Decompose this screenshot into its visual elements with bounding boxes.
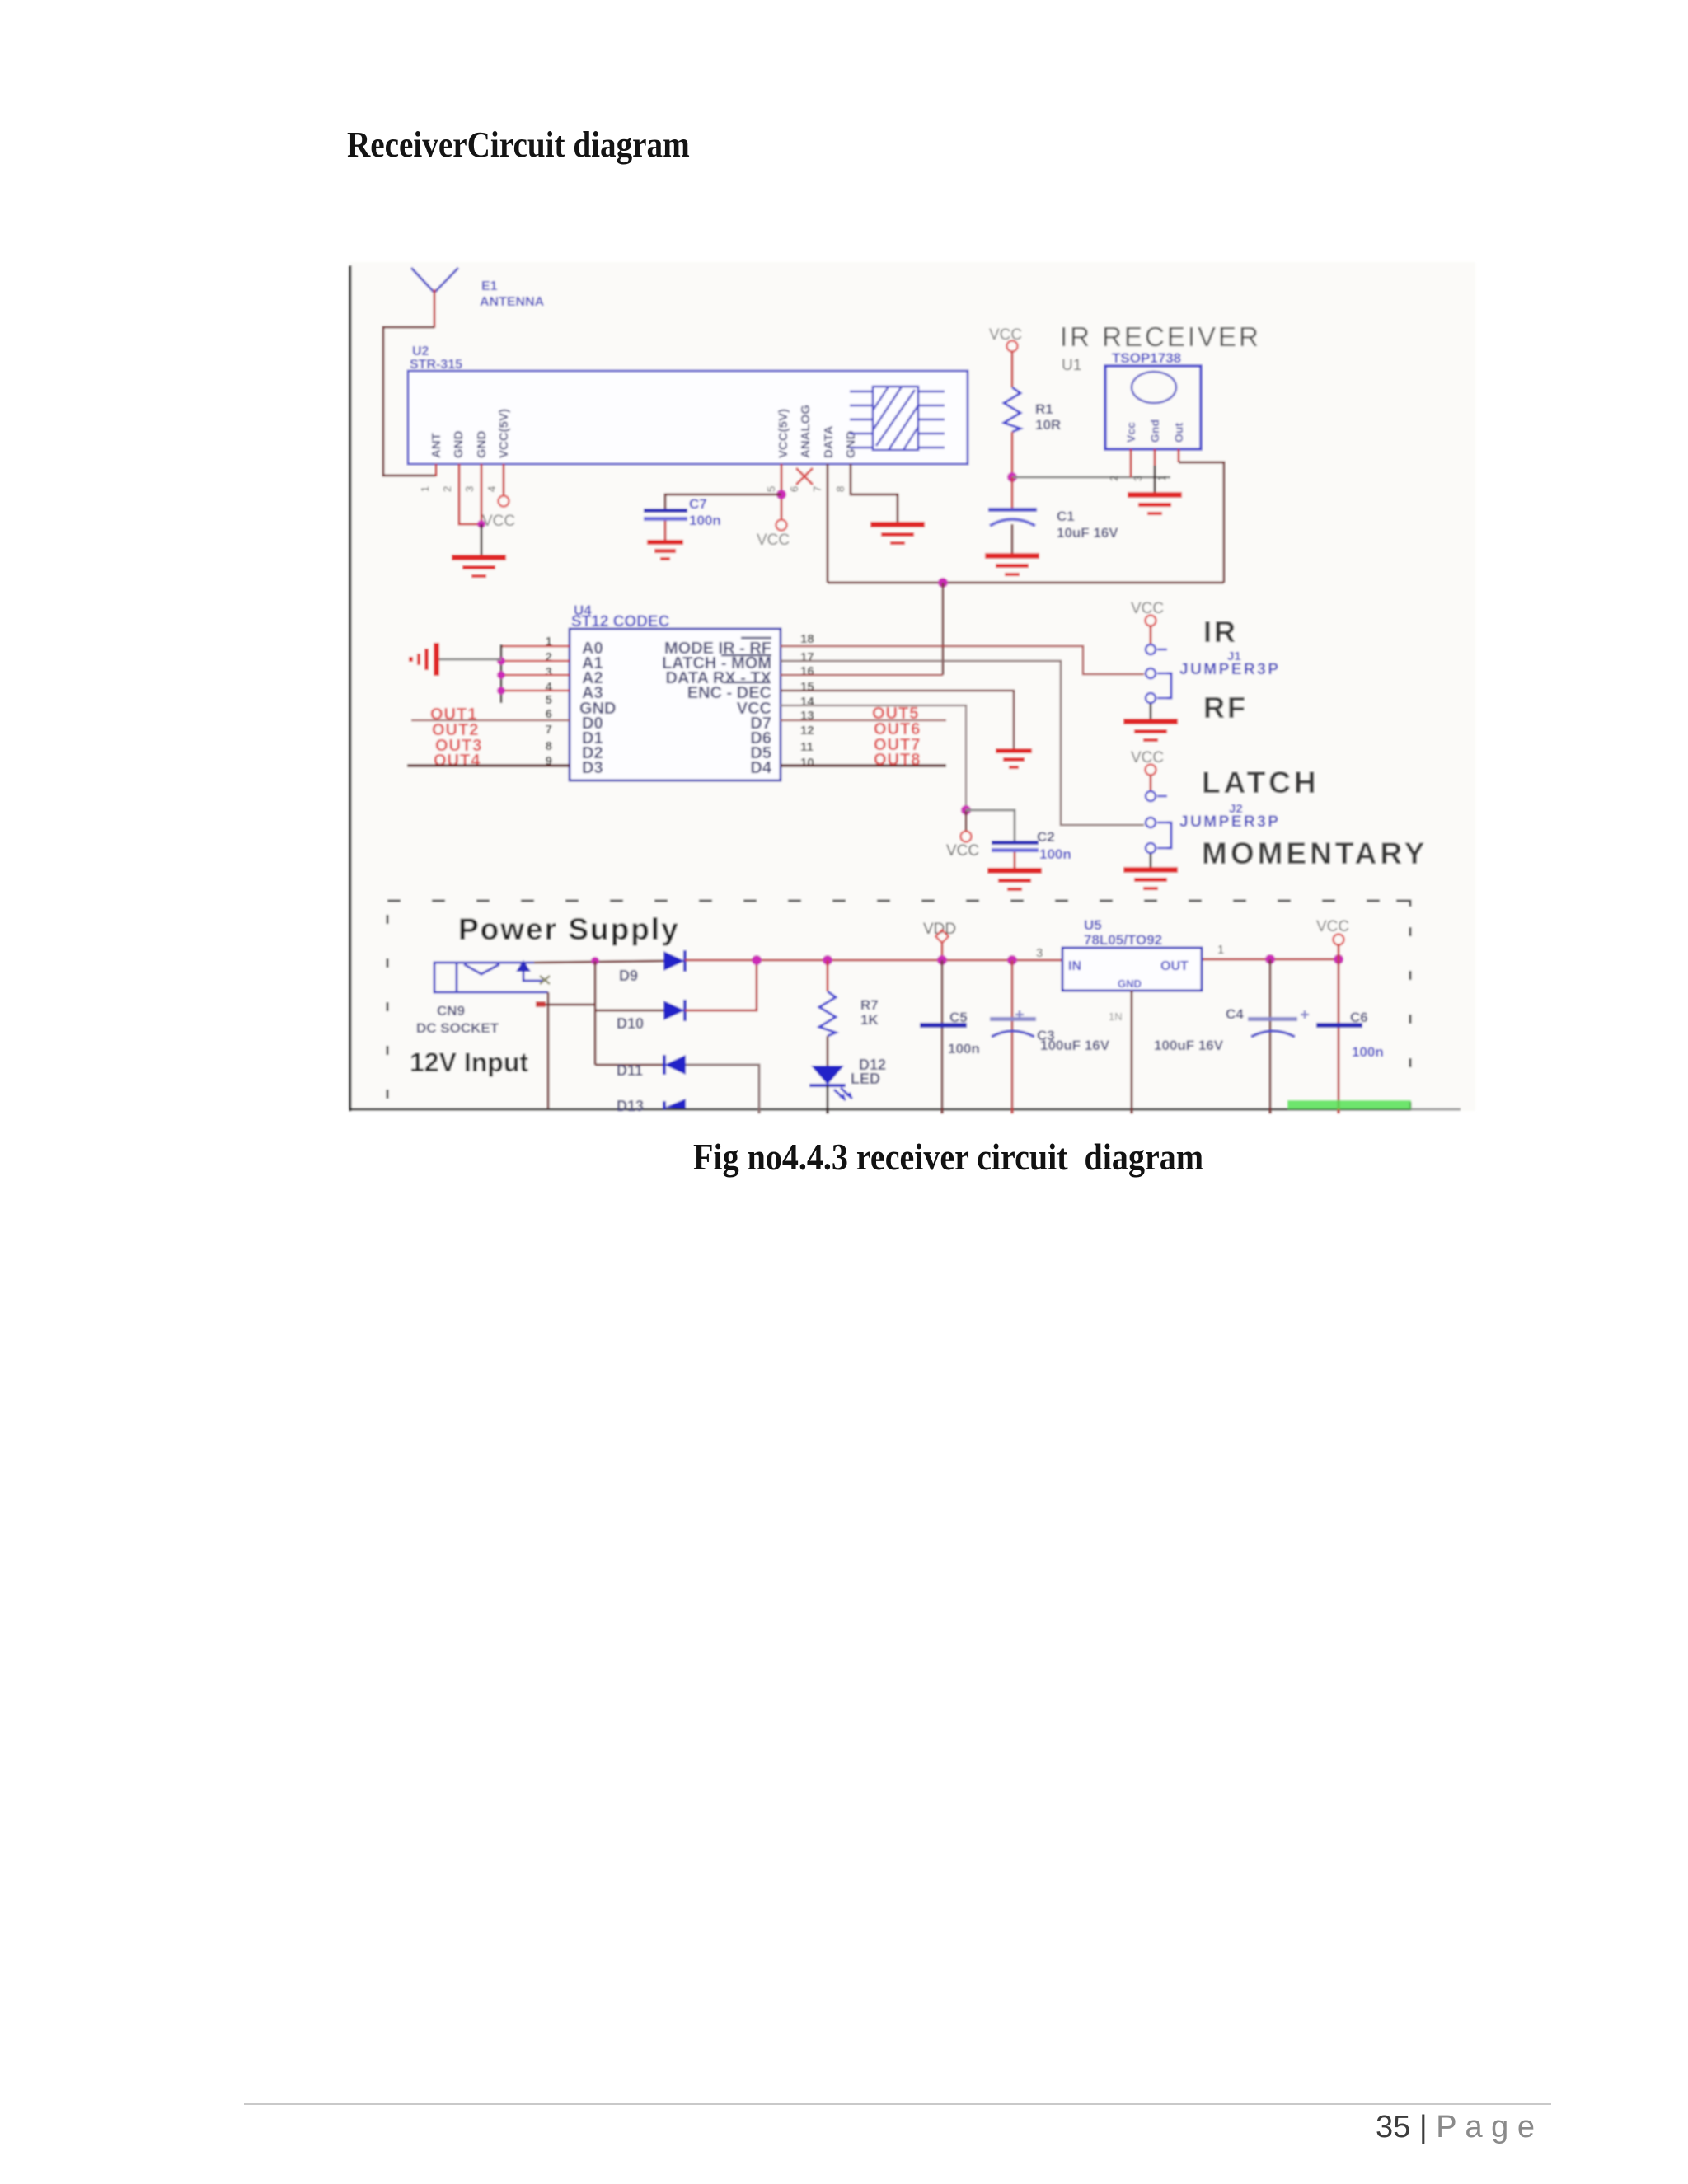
wire ground to bus [438,658,501,661]
wire C7 to VCC junction [665,494,781,509]
label OUT5 [872,705,919,723]
ground under C1 [985,553,1039,576]
svg-text:U5: U5 [1084,917,1102,933]
label C5 100n [948,1010,980,1057]
svg-text:Gnd: Gnd [1148,419,1161,443]
label R7 1K [860,997,879,1028]
svg-text:Power Supply: Power Supply [458,912,680,946]
svg-text:U1: U1 [1062,357,1081,374]
wire VDD to rail [941,942,944,960]
VCC symbol at U2 pin4 [499,496,509,507]
antenna E1 [411,268,458,328]
svg-text:ANTENNA: ANTENNA [480,295,545,309]
svg-text:Vcc: Vcc [1124,422,1137,443]
U2 pin numbers 5-8 [765,486,846,492]
ground at U4 pin15 [996,748,1032,769]
svg-text:3: 3 [1036,946,1043,960]
diode D11 [664,1055,686,1075]
junction C4 [1265,954,1275,964]
U4 pin2 stub [501,660,570,663]
capacitor C3 [990,960,1036,1113]
junction R7 [823,955,832,965]
VCC symbol above J2 [1146,765,1156,776]
wire antenna to U2 ANT pin [383,327,436,476]
label D10 [617,1015,644,1032]
svg-text:12V Input: 12V Input [410,1047,528,1077]
diode D10 [663,1000,685,1021]
U1 Gnd wire [1154,466,1156,492]
svg-text:STR-315: STR-315 [410,358,462,372]
diode D13 (clipped) [617,1098,686,1114]
svg-text:IR RECEIVER: IR RECEIVER [1060,321,1261,352]
wire D10 cathode to rail [685,960,757,1010]
svg-text:78L05/TO92: 78L05/TO92 [1084,932,1162,948]
wire socket top to D9 [534,961,663,963]
label OUT6 [874,720,921,738]
figure left border [349,265,352,1111]
svg-text:LATCH: LATCH [1202,766,1320,799]
J2 pin3 wire to ground [1150,854,1152,867]
wire socket middle [536,1001,595,1007]
svg-text:ANALOG: ANALOG [799,405,813,458]
svg-text:7: 7 [546,723,552,737]
U4 pin1 stub [501,645,570,648]
svg-text:100n: 100n [1352,1044,1384,1060]
svg-text:3: 3 [463,486,476,492]
svg-text:C2: C2 [1037,829,1055,845]
svg-text:D11: D11 [617,1062,643,1079]
junction data net [938,578,948,588]
svg-text:16: 16 [800,664,814,678]
svg-text:Out: Out [1172,423,1185,443]
wire junction to TSOP Vcc pin [1012,476,1170,479]
codec U4 body [570,629,781,780]
svg-text:4: 4 [546,680,553,694]
junction A3 [497,687,505,695]
label OUT7 [874,736,921,754]
svg-text:18: 18 [800,632,814,646]
capacitor C1 [988,477,1037,553]
junction C6 VCC [1334,954,1343,964]
label D12 LED [851,1057,886,1087]
no-connect X on ANALOG pin [796,468,813,485]
label RF [1203,691,1248,724]
wire U4 pin16 stub [781,674,943,677]
label C6 100n [1350,1010,1384,1060]
U2 pin numbers 1-4 [419,486,498,492]
label TSOP1738 [1112,350,1181,366]
wire D11 row [595,1064,664,1066]
svg-text:100n: 100n [689,513,721,528]
ground under J1 [1123,719,1178,742]
J1 pin3 wire to ground [1150,704,1152,719]
wire junction to ground [481,524,483,555]
wire U4 pin15 to ground [781,691,1014,748]
svg-text:MOMENTARY: MOMENTARY [1202,837,1428,870]
svg-text:TSOP1738: TSOP1738 [1112,350,1181,366]
U5 pin numbers [1036,943,1224,1023]
J1 shorting bar [1167,673,1171,698]
wire junction to VCC symbol [965,810,968,831]
wire data net horizontal [828,582,1224,584]
junction A2 [497,671,505,679]
junction A1 [497,657,505,665]
svg-text:VCC: VCC [1316,918,1349,935]
VCC symbol above R1 [1007,341,1018,352]
svg-text:100n: 100n [948,1041,980,1057]
svg-text:RF: RF [1203,691,1248,724]
svg-text:4: 4 [485,486,498,492]
svg-text:10uF 16V: 10uF 16V [1057,525,1118,541]
label U4 ST12 CODEC [571,602,670,630]
svg-text:VCC: VCC [482,513,515,530]
svg-text:C6: C6 [1350,1010,1368,1025]
U1 pin numbers 2 3 1 [1108,476,1168,481]
label OUT3 [435,737,482,755]
svg-text:D10: D10 [617,1015,644,1032]
svg-text:14: 14 [800,695,814,709]
svg-text:100uF 16V: 100uF 16V [1154,1038,1224,1053]
label LATCH [1202,766,1320,799]
svg-text:LED: LED [851,1071,880,1087]
svg-text:IN: IN [1068,959,1081,973]
U2 GND pin 2 wire [459,464,479,524]
green mark bottom right [1287,1100,1411,1109]
ground under J2 [1123,867,1178,890]
ground left of U4 (rotated) [409,643,439,676]
svg-text:R1: R1 [1035,401,1053,417]
svg-text:E1: E1 [481,279,498,293]
label OUT2 [432,721,479,739]
diode D9 [663,950,685,972]
wire D11 anode down [686,1065,759,1113]
U1 pin stubs [1131,449,1179,477]
wire VCC to J2 pin1 [1150,775,1152,790]
svg-text:GND: GND [475,431,489,459]
VCC label above J1 [1131,600,1164,617]
label J2 JUMPER3P [1179,802,1280,831]
jumper J2 pin1 [1146,791,1167,801]
svg-text:C4: C4 [1226,1006,1244,1022]
VCC label above J2 [1131,749,1164,766]
svg-text:3: 3 [546,665,552,679]
ground under U2 pin8 [870,522,925,545]
DC socket pin arrow [516,960,550,984]
wire AC2 vertical [594,961,597,1065]
svg-text:OUT8: OUT8 [874,751,921,769]
U4 pin3 stub [501,674,570,677]
label U2 STR-315 [410,344,462,372]
VCC label below U4 pin14 [946,842,979,860]
svg-text:VCC: VCC [1131,749,1164,766]
ground under U2 [452,555,506,578]
label OUT8 [874,751,921,769]
svg-text:10: 10 [800,756,814,770]
label 12V Input [410,1047,528,1077]
svg-text:CN9: CN9 [437,1003,465,1019]
resistor R1 [1004,387,1020,432]
label C7 100n [689,496,721,528]
wire R1 to junction [1011,432,1014,477]
svg-text:JUMPER3P: JUMPER3P [1179,813,1280,831]
wire data net down to codec pin16 [942,583,945,675]
LED D12 [809,1066,852,1100]
figure bottom border [349,1108,1461,1111]
wire U5 GND down [1131,991,1133,1113]
svg-text:100uF 16V: 100uF 16V [1040,1038,1110,1053]
jumper J1 pin1 [1146,644,1167,654]
svg-text:VCC(5V): VCC(5V) [776,409,790,458]
label J1 JUMPER3P [1179,649,1280,678]
svg-text:C7: C7 [689,496,707,512]
label D9 [619,968,638,984]
label OUT4 [434,752,481,770]
svg-text:GND: GND [1118,977,1142,990]
U4 pin4 stub [501,690,570,692]
svg-text:C1: C1 [1057,509,1075,524]
U2 GND pin 3 wire [481,464,483,524]
svg-text:U2: U2 [412,344,429,359]
svg-text:GND: GND [844,431,858,459]
svg-text:D4: D4 [750,759,771,777]
svg-text:1: 1 [1217,943,1224,957]
wire socket sleeve down [547,992,550,1108]
U2 pin 4 VCC stub [503,464,505,495]
capacitor C7 [644,509,687,540]
wire OUT4 row [407,764,570,767]
svg-text:10R: 10R [1035,417,1061,433]
wire R7 to LED [827,1036,829,1066]
svg-text:DC SOCKET: DC SOCKET [416,1020,499,1036]
label Power Supply [458,912,680,946]
wire LED down [827,1085,829,1113]
wire U4 pin13 stub [781,719,946,722]
svg-text:100n: 100n [1039,846,1071,862]
junction C5 [1007,955,1017,965]
wire U1 Out to data net [1179,462,1224,583]
VCC label at U2 pin4 [482,513,515,530]
svg-text:R7: R7 [860,997,879,1013]
svg-text:1N: 1N [1109,1010,1123,1023]
wire junction to C2 [966,810,1015,841]
VCC symbol below U4 pin14 [961,832,972,842]
label IR [1203,615,1238,649]
svg-text:6: 6 [546,707,552,721]
junction VCC C2 [961,805,971,815]
junction VDD [937,955,947,965]
label D11 [617,1062,643,1079]
junction C7 / VCC5V [776,490,786,499]
svg-text:1: 1 [419,486,431,492]
junction R1/C1 [1007,472,1017,482]
svg-text:VCC(5V): VCC(5V) [497,409,511,458]
capacitor C6 [1316,959,1362,1113]
wire OUT1 row [411,719,570,722]
label R1 10R [1035,401,1061,433]
VCC symbol under U2 pin5 [776,520,787,531]
svg-text:D3: D3 [582,759,603,777]
label C1 10uF 16V [1057,509,1118,541]
address bus bar [500,644,503,703]
wire D10 row [595,1010,663,1012]
VCC symbol above J1 [1146,616,1156,626]
U2 antenna hatched block [850,387,945,450]
junction AC1 [591,957,599,965]
resistor R7 [819,991,836,1036]
svg-text:6: 6 [788,486,800,492]
svg-text:17: 17 [800,650,814,664]
svg-text:15: 15 [800,680,814,694]
DC socket CN9 [434,963,548,992]
svg-text:VCC: VCC [989,326,1022,344]
jumper J1 pin2 [1146,668,1167,678]
power rail [685,959,1339,960]
svg-text:VDD: VDD [923,921,956,938]
wire U4 pin14 VCC [781,705,966,810]
ground under C7 [647,540,683,560]
wire VCC to R1 [1011,351,1014,387]
svg-text:ANT: ANT [429,433,443,458]
label MOMENTARY [1202,837,1428,870]
svg-text:7: 7 [811,486,823,492]
svg-text:D9: D9 [619,968,638,984]
svg-text:5: 5 [546,693,552,707]
svg-text:2: 2 [441,486,453,492]
U2 pin labels right group (VCC(5V) ANALOG DATA GND) [776,405,858,458]
J2 shorting bar [1167,823,1171,848]
VCC label above R1 [989,326,1022,344]
wire U4 pin10 stub [781,764,946,767]
svg-text:8: 8 [834,486,846,492]
svg-text:C5: C5 [949,1010,968,1025]
U5 labels IN OUT GND [1068,959,1189,990]
label CN9 DC SOCKET [416,1003,499,1036]
VCC label right [1316,918,1349,935]
VCC symbol right [1334,935,1344,945]
capacitor C4 [1248,959,1309,1113]
wire VCC to rail right [1338,944,1340,959]
svg-text:IR: IR [1203,615,1238,649]
svg-text:3: 3 [1132,476,1144,481]
svg-text:12: 12 [800,724,814,738]
svg-text:GND: GND [452,431,466,459]
label C4 100uF 16V [1154,1006,1244,1053]
jumper J2 pin3 [1146,843,1167,853]
jumper J1 pin3 [1146,693,1167,703]
svg-text:JUMPER3P: JUMPER3P [1179,661,1280,678]
capacitor C5 [920,960,967,1113]
ground under C2 [987,868,1042,891]
wire rail to R7 [827,960,829,991]
label C3 100uF 16V [1037,1028,1110,1053]
U4 right pin labels [662,638,772,777]
svg-text:DATA: DATA [822,425,836,458]
svg-text:1: 1 [1156,476,1168,481]
label IR RECEIVER [1060,321,1261,352]
capacitor C2 [992,841,1039,868]
svg-text:2: 2 [1108,476,1120,481]
label E1 ANTENNA [480,279,545,309]
ground under U1 [1128,492,1182,515]
wire VCC to J1 pin1 [1150,626,1152,644]
label VDD [923,921,956,938]
svg-text:VCC: VCC [1131,600,1164,617]
U4 left pin labels [579,640,616,777]
jumper J2 pin2 [1146,818,1167,827]
junction D10 rail [752,955,762,965]
svg-text:VCC: VCC [757,532,790,549]
label U5 78L05/TO92 [1084,917,1162,948]
U4 left pin numbers 1-9 [546,635,553,768]
U2 pin labels left group (ANT GND GND VCC(5V)) [429,409,511,458]
svg-text:8: 8 [546,739,552,753]
U2 GND pin 8 wire [851,464,898,522]
wire U4 pin17 to J2 [781,661,1144,825]
U4 right pin numbers 18-10 [800,632,814,770]
VDD symbol [935,930,949,944]
junction U2 gnd [477,520,485,528]
IR receiver U1 body [1105,366,1201,449]
svg-text:5: 5 [765,486,777,492]
U2 DATA pin wire down [827,464,829,583]
svg-text:VCC: VCC [946,842,979,860]
U1 pin labels Vcc Gnd Out [1124,419,1185,443]
label OUT1 [430,705,477,724]
RF module U2 STR-315 [408,371,968,464]
svg-text:D13: D13 [617,1098,644,1114]
svg-text:11: 11 [800,740,814,754]
wire U4 pin18 to J1 [781,646,1144,674]
svg-text:1K: 1K [860,1012,879,1028]
U2 pin5 VCC stub [781,464,783,520]
power supply dashed border [387,901,1410,1108]
label U1 [1062,357,1081,374]
regulator U5 body [1062,948,1202,991]
label C2 100n [1037,829,1071,862]
VCC label under U2 pin5 [757,532,790,549]
U2 pin 1 ANT stub [435,464,438,476]
svg-text:2: 2 [546,650,552,664]
svg-text:OUT: OUT [1160,959,1189,973]
